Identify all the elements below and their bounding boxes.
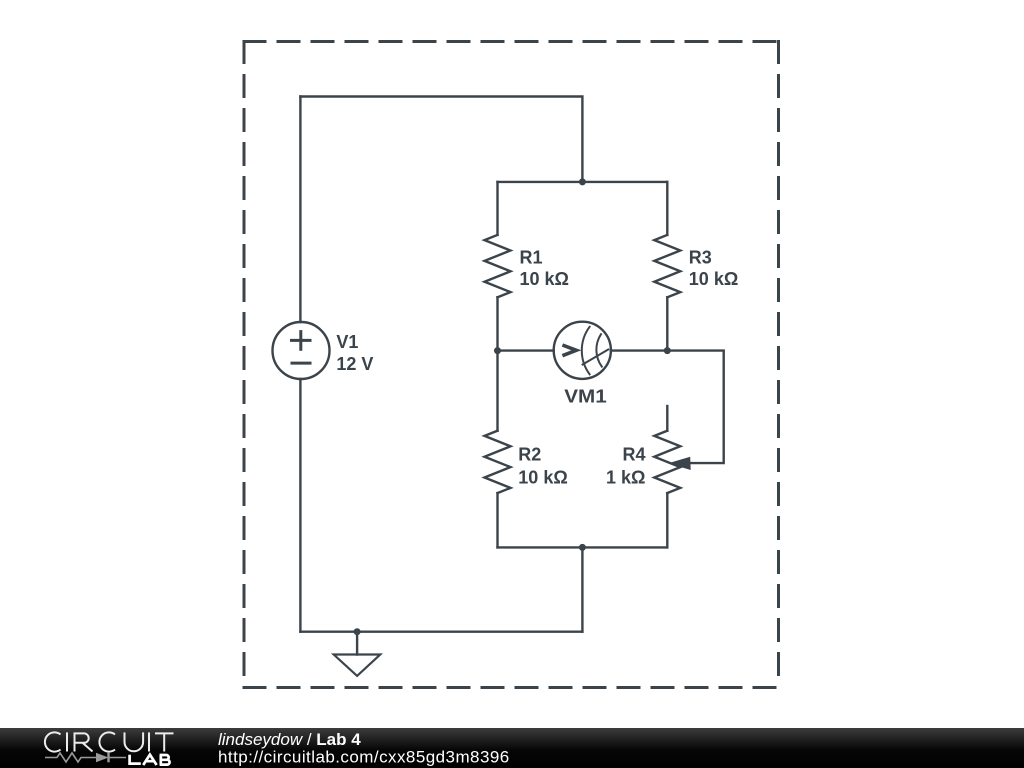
node A: left bridge midpoint — [494, 347, 501, 354]
label R2 value — [518, 444, 567, 487]
wire R4 bottom lead — [666, 493, 668, 547]
wire R3 bottom lead — [666, 297, 668, 350]
node: bridge top junction — [579, 178, 586, 185]
label V1 value — [336, 332, 373, 374]
node: bridge bottom junction — [579, 544, 586, 551]
wire R3 top lead — [666, 182, 668, 235]
voltmeter VM1 — [554, 322, 611, 379]
voltage source V1 — [273, 322, 330, 379]
footer title text — [218, 730, 510, 766]
svg-text:R3: R3 — [689, 247, 712, 267]
wire R1 bottom lead — [496, 297, 498, 350]
potentiometer R4 body — [654, 431, 680, 493]
svg-text:VM1: VM1 — [564, 387, 607, 407]
wire R2 bottom lead — [496, 493, 498, 547]
wire middle right (voltmeter to node B and wiper riser) — [611, 351, 724, 464]
CircuitLab logo LAB wordmark — [130, 755, 170, 765]
CircuitLab logo resistor-diode strip — [45, 753, 126, 763]
svg-text:R1: R1 — [520, 247, 543, 267]
svg-text:V1: V1 — [336, 332, 358, 352]
wire middle left (node A to voltmeter) — [498, 349, 554, 351]
ground symbol — [334, 632, 381, 676]
resistor R3 — [654, 235, 680, 297]
wire top from V1 column to center column — [300, 97, 582, 182]
node: ground junction — [354, 628, 361, 635]
svg-text:lindseydow / Lab 4: lindseydow / Lab 4 — [218, 730, 361, 749]
label VM1 — [564, 387, 607, 407]
svg-text:12 V: 12 V — [336, 354, 373, 374]
label R1 value — [520, 247, 569, 289]
schematic dashed boundary — [244, 42, 779, 688]
svg-text:10 kΩ: 10 kΩ — [518, 467, 567, 487]
footer bar — [0, 728, 1024, 768]
svg-text:http://circuitlab.com/cxx85gd3: http://circuitlab.com/cxx85gd3m8396 — [218, 747, 510, 766]
svg-text:R2: R2 — [518, 444, 541, 464]
wire left column bottom (V1 minus terminal) — [299, 379, 301, 632]
wire left column top (V1 plus terminal) — [299, 97, 301, 323]
wire center column to ground rail — [581, 547, 583, 631]
potentiometer R4 wiper arrow — [668, 457, 690, 470]
wire bridge bottom rail — [498, 546, 668, 548]
CircuitLab logo CIRCUIT wordmark — [45, 732, 174, 751]
wire bridge top rail — [498, 181, 668, 183]
wire ground rail — [300, 631, 582, 633]
node B: right bridge midpoint — [664, 347, 671, 354]
label R3 value — [689, 247, 738, 289]
label R4 value — [606, 444, 645, 487]
wire R4 floating top terminal — [666, 406, 668, 431]
svg-text:R4: R4 — [622, 444, 645, 464]
resistor R2 — [485, 431, 511, 493]
svg-text:10 kΩ: 10 kΩ — [520, 269, 569, 289]
wire R2 top lead — [496, 351, 498, 431]
svg-text:10 kΩ: 10 kΩ — [689, 269, 738, 289]
wire R1 top lead — [496, 182, 498, 235]
svg-text:1 kΩ: 1 kΩ — [606, 467, 645, 487]
resistor R1 — [485, 235, 511, 297]
